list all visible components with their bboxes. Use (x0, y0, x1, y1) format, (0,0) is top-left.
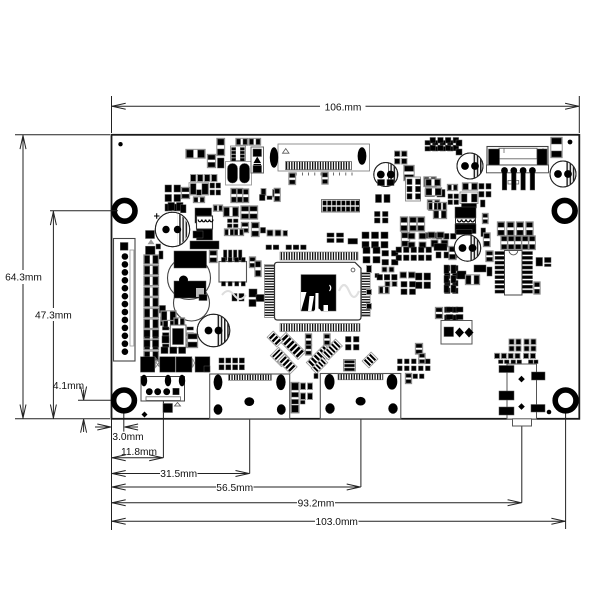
angled resistor 7 (362, 352, 378, 368)
IC U1 main QFP body (275, 262, 362, 320)
resistor pair top (236, 138, 248, 145)
pads under FPC (289, 173, 296, 185)
capacitor pair tall (217, 138, 225, 155)
jack dot (547, 410, 552, 415)
dimension 31.5mm extension line (249, 406, 251, 474)
transistor SOT-23 (189, 183, 209, 195)
passives near U-audio (144, 330, 150, 337)
transistor Q2 (457, 153, 483, 179)
pad pair (168, 203, 175, 211)
resistor (213, 205, 222, 211)
IC U-SOIC8 (219, 262, 247, 283)
diamond via (142, 412, 148, 418)
svg-text:56.5mm: 56.5mm (216, 483, 253, 494)
passive pair (161, 311, 176, 321)
dimension 47.3mm extension line (50, 210, 118, 212)
resistor small (193, 197, 204, 203)
dimension 103.0mm extension line (565, 414, 567, 530)
angled pad row 6 (311, 357, 327, 373)
resistor small (447, 184, 457, 190)
pad column 2x4 (445, 266, 451, 272)
electrolytic capacitor C-E1 (155, 212, 189, 246)
svg-text:103.0mm: 103.0mm (315, 517, 357, 528)
tantalum capacitor pair (226, 162, 252, 186)
IC 2x3 pads (406, 177, 421, 201)
inductor L1 dark (195, 208, 212, 223)
resistor trio (428, 202, 438, 210)
transistor Q5 (454, 235, 480, 261)
QFP pin strip right (362, 273, 371, 317)
pad grid small (448, 194, 453, 199)
passives right of Q1 (424, 177, 436, 187)
QFP pin strip left (265, 265, 276, 318)
dimension 3.0mm arrows (97, 424, 111, 430)
power rect big1 (174, 251, 207, 268)
capacitor (209, 250, 217, 262)
mounting hole top-right (554, 200, 575, 221)
connector HDMI1 (210, 374, 290, 419)
pad parts right (261, 189, 266, 196)
pad grid (446, 307, 453, 312)
jack stem tab (513, 419, 532, 426)
pads above jack (509, 339, 514, 345)
pad below J-PWR (163, 404, 173, 413)
jack diamonds (518, 376, 525, 383)
angled hatched square (270, 347, 289, 366)
svg-text:93.2mm: 93.2mm (298, 498, 335, 509)
capacitors vertical trio (305, 334, 311, 345)
transistor Q4 (197, 314, 230, 347)
IC U-audio (170, 325, 186, 348)
dark block under coil (197, 229, 213, 240)
svg-text:106.mm: 106.mm (325, 103, 362, 114)
dimension 106.mm line (112, 105, 321, 107)
passives near SOIC (249, 289, 257, 297)
power pad row (141, 357, 155, 372)
power rect big2 (174, 281, 206, 298)
pad cluster right of HDMI2 (398, 359, 403, 364)
pad grid small (228, 219, 233, 223)
dimension 93.2mm line (112, 502, 298, 504)
transistor Q3 (550, 161, 576, 187)
capacitor top-right (551, 137, 562, 157)
passive cluster low (241, 222, 248, 232)
fiducial dot top-right (568, 140, 573, 145)
watermark logo block (301, 275, 336, 311)
power inductor block (455, 207, 476, 218)
dimension 11.8mm extension line (162, 394, 164, 458)
pad row 2x4 top (425, 141, 431, 146)
pad pair big (400, 272, 407, 278)
pad grid 2x4 bottom (219, 358, 224, 363)
mounting hole bottom-right (555, 390, 576, 411)
fiducial dot top-left (118, 142, 122, 146)
pad grid low (445, 307, 451, 313)
connector HDMI2 (320, 374, 401, 419)
inductor 3-bar (344, 360, 356, 372)
pad grid pair (376, 195, 382, 203)
PCB board outline (112, 135, 580, 419)
connector CN-3pad (441, 321, 472, 345)
QFN pins (224, 250, 227, 261)
wafer connector CN-PWR (487, 147, 548, 166)
pad grid 2x2 (479, 184, 484, 190)
mounting hole top-left (114, 200, 135, 221)
resistor R-big (223, 207, 238, 217)
pad grid 2x3 left (165, 185, 172, 192)
pad trio right (536, 258, 543, 267)
svg-text:64.3mm: 64.3mm (5, 273, 42, 284)
resistor (462, 183, 477, 190)
capacitor (449, 246, 456, 259)
angled resistor network 4 (306, 344, 332, 370)
dimension 56.5mm extension line (360, 405, 362, 487)
QFP pin strip top (280, 252, 358, 260)
pin header 2x8 (322, 200, 360, 213)
capacitor (404, 165, 414, 180)
connector jack body (507, 364, 537, 419)
pad grid 2x2 (395, 151, 401, 157)
coil component (197, 216, 213, 229)
pad row 2x4 (430, 138, 436, 144)
pad rows bottom (426, 233, 431, 239)
capacitor (181, 187, 189, 198)
pad pair (382, 267, 387, 272)
passives column near left connector (146, 231, 155, 239)
IC SOT-89 (460, 192, 478, 204)
dimension 47.3mm line (52, 211, 54, 308)
resistor R-tl1 (186, 149, 205, 158)
pads above SSOP (501, 236, 508, 250)
angled resistor 3 (278, 354, 297, 373)
ferrite bead (434, 244, 447, 251)
dimension 103.0mm line (112, 520, 316, 522)
dimension 93.2mm extension line (521, 425, 523, 503)
capacitor trio narrow (231, 188, 237, 202)
dimension 64.3mm extension lines (15, 134, 110, 136)
dimension 3.0mm extension line (123, 414, 125, 432)
pads above QFP (266, 245, 272, 250)
power inductor circle lower (174, 285, 210, 321)
resistor pair left (425, 179, 440, 186)
capacitor pair v (241, 206, 249, 219)
pad row mid (396, 247, 402, 253)
pad grid 2x2 right (346, 337, 352, 343)
pad quad bold (416, 273, 423, 280)
capacitor low (435, 307, 442, 318)
svg-text:11.8mm: 11.8mm (121, 447, 157, 458)
angled resistor network 1 (278, 332, 305, 359)
watermark ghost text (339, 285, 359, 297)
dimension 11.8mm line (112, 457, 164, 459)
FPC connector CN-top (278, 144, 370, 171)
QFP pin strip bottom (280, 324, 360, 332)
IC U-8pad (231, 146, 246, 161)
passives mid-right (486, 251, 493, 262)
watermark squiggle (222, 291, 246, 299)
pad row top (428, 232, 435, 238)
diode D1 (251, 147, 264, 173)
angled resistor 2 (267, 331, 283, 347)
connector J-LVDS left edge (114, 239, 136, 362)
svg-text:3.0mm: 3.0mm (112, 432, 143, 443)
transistor Q1 (374, 163, 398, 187)
svg-text:47.3mm: 47.3mm (35, 311, 72, 322)
capacitor cluster right of QFP (362, 232, 369, 239)
pad row dark (190, 241, 219, 249)
pad row of four (191, 175, 197, 182)
svg-text:31.5mm: 31.5mm (160, 469, 197, 480)
power inductor circle upper (168, 257, 211, 300)
IC U-SSOP (505, 251, 523, 296)
bottom-left extension line (111, 419, 113, 530)
pad row (377, 275, 383, 281)
pads right of inductor (481, 200, 486, 207)
angled resistor 5 (322, 339, 343, 360)
pad small (314, 374, 318, 379)
dimension 106.mm extension lines (111, 96, 113, 133)
pad strip between HDMI (291, 382, 299, 413)
dimension 4.1mm arrows (81, 387, 87, 401)
capacitor column (401, 232, 409, 246)
pad grid 2x2 (408, 233, 415, 239)
dimension 64.3mm line (22, 135, 24, 270)
pad grid 2x2 (210, 183, 215, 188)
dimension 56.5mm line (112, 486, 217, 488)
pad grid (401, 282, 407, 288)
dimension 31.5mm line (112, 473, 161, 475)
capacitor (483, 233, 490, 247)
black square pad (199, 295, 207, 301)
connector J-PWR 4pin (141, 377, 185, 402)
svg-text:4.1mm: 4.1mm (53, 381, 84, 392)
resistor (379, 286, 389, 293)
mounting hole bottom-left (114, 390, 135, 411)
dimension 4.1mm extension line (78, 399, 111, 401)
capacitor quartet (497, 222, 504, 236)
